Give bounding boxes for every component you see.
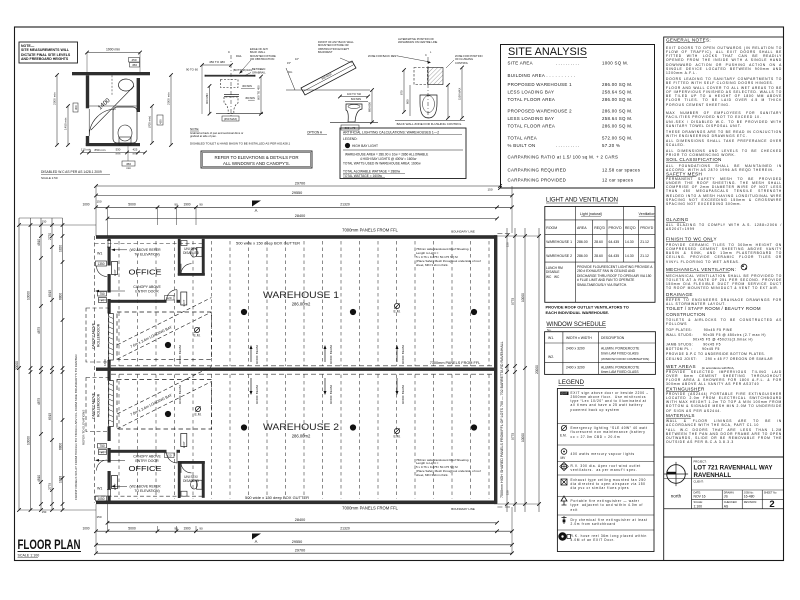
svg-text:28.60: 28.60 [594, 240, 603, 244]
svg-text:450: 450 [131, 58, 136, 62]
svg-text:90: 90 [174, 527, 178, 531]
svg-text:10000: 10000 [26, 291, 30, 300]
svg-text:5000: 5000 [128, 203, 136, 207]
svg-text:RAVENHALL: RAVENHALL [694, 472, 732, 479]
svg-text:100 TO 740: 100 TO 740 [347, 92, 362, 96]
svg-text:DESCRIPTION: DESCRIPTION [601, 336, 625, 340]
svg-text:WIDTH x WIDTH: WIDTH x WIDTH [566, 336, 592, 340]
svg-text:E.M.: E.M. [195, 413, 202, 417]
svg-text:1600: 1600 [103, 359, 107, 366]
svg-text:ROOF BEAM: ROOF BEAM [255, 345, 259, 364]
svg-text:90: 90 [199, 527, 203, 531]
svg-text:450: 450 [132, 63, 137, 67]
svg-text:6mm LAM FIXED GLASS: 6mm LAM FIXED GLASS [601, 352, 639, 356]
svg-text:(W2 ABOVE REFER: (W2 ABOVE REFER [129, 485, 161, 489]
svg-text:6mm LAM FIXED GLASS: 6mm LAM FIXED GLASS [601, 370, 639, 374]
svg-text:FRONT PANELS SPLAY FROM 7000mm: FRONT PANELS SPLAY FROM 7000mm TO 7300mm… [74, 354, 78, 500]
svg-text:16-480: 16-480 [744, 495, 755, 499]
svg-text:OPTION A: OPTION A [307, 131, 323, 135]
svg-text:29550: 29550 [292, 540, 303, 544]
svg-text:GLAZING: GLAZING [666, 217, 689, 222]
svg-text:TOTAL AREA: TOTAL AREA [508, 136, 538, 141]
svg-text:10000: 10000 [521, 293, 525, 302]
svg-text:BOUNDARY LINE: BOUNDARY LINE [451, 230, 475, 234]
svg-text:Light (natural): Light (natural) [580, 212, 602, 216]
svg-text:. . . . . . . . . .: . . . . . . . . . . [556, 61, 579, 66]
svg-text:LESS LOADING BAY: LESS LOADING BAY [508, 116, 555, 121]
svg-text:AS: AS [724, 504, 729, 508]
svg-text:572.00 SQ M.: 572.00 SQ M. [602, 136, 633, 141]
svg-text:90x45 F5 @ 450ctrs(3.0max H): 90x45 F5 @ 450ctrs(3.0max H) [666, 338, 753, 342]
svg-text:% BUILT ON: % BUILT ON [508, 143, 536, 148]
svg-text:ROOF BEAM: ROOF BEAM [401, 385, 405, 404]
svg-text:5000: 5000 [128, 527, 136, 531]
svg-text:min: min [116, 152, 121, 156]
svg-text:150: 150 [96, 200, 101, 204]
svg-text:750: 750 [99, 444, 105, 448]
svg-text:WAREHOUSE 2: WAREHOUSE 2 [263, 421, 339, 432]
svg-text:ENTRY DOOR: ENTRY DOOR [135, 290, 159, 294]
svg-text:E.M.: E.M. [194, 334, 201, 338]
svg-text:MATERIALS: MATERIALS [666, 413, 695, 418]
svg-text:920: 920 [166, 454, 171, 458]
svg-text:CANOPY ABOVE: CANOPY ABOVE [92, 322, 96, 349]
svg-text:1050: 1050 [97, 497, 104, 501]
svg-text:28400: 28400 [295, 214, 306, 218]
svg-text:ALUMIN. POWDERCOTE: ALUMIN. POWDERCOTE [601, 366, 640, 370]
svg-text:258.64 SQ M.: 258.64 SQ M. [602, 116, 633, 121]
svg-text:CONSTRUCTION: CONSTRUCTION [666, 312, 706, 317]
svg-text:SITE AREA: SITE AREA [508, 61, 533, 66]
svg-text:EXTINGUISHER: EXTINGUISHER [666, 387, 705, 392]
svg-text:1000 SQ M.: 1000 SQ M. [602, 61, 628, 66]
svg-text:LEGEND:: LEGEND: [343, 137, 358, 141]
svg-text:57.20 %: 57.20 % [602, 143, 620, 148]
svg-text:DISABLED TOILET & HAND BASIN T: DISABLED TOILET & HAND BASIN TO BE INSTA… [190, 142, 291, 146]
svg-text:TO ELEVATION): TO ELEVATION) [134, 253, 159, 257]
svg-text:BETWEEN: BETWEEN [252, 67, 265, 71]
svg-text:north: north [671, 494, 682, 499]
svg-text:MV: MV [561, 456, 567, 460]
svg-text:500 wide x 150 deep BOX GUTTER: 500 wide x 150 deep BOX GUTTER [236, 241, 300, 246]
svg-text:PROVIDE D.P.C TO UNDERSIDE BOT: PROVIDE D.P.C TO UNDERSIDE BOTTOM PLATES… [666, 352, 766, 356]
svg-text:E.M.: E.M. [394, 310, 401, 314]
svg-text:HIGH BAY LIGHT: HIGH BAY LIGHT [352, 144, 378, 148]
svg-text:21320: 21320 [340, 203, 350, 207]
svg-text:SAFETY MESH: SAFETY MESH [666, 172, 702, 177]
svg-text:2779: 2779 [48, 483, 52, 490]
svg-text:920: 920 [166, 296, 171, 300]
svg-text:W2.: W2. [548, 355, 554, 359]
svg-text:EXIT: EXIT [113, 269, 117, 276]
svg-text:PROVIDE ROOF OUTLET VENTILA: PROVIDE ROOF OUTLET VENTILATORS TO [546, 305, 629, 310]
svg-text:1000: 1000 [82, 527, 89, 531]
svg-text:286.00: 286.00 [577, 254, 588, 258]
svg-text:WAREHOUSE 1: WAREHOUSE 1 [546, 240, 572, 244]
svg-text:W1.: W1. [548, 336, 554, 340]
svg-text:150: 150 [506, 242, 510, 247]
svg-text:Dim: Dim [288, 71, 292, 74]
svg-text:TOILET / STAFF ROOM / BEAUTY: TOILET / STAFF ROOM / BEAUTY ROOM [666, 306, 761, 311]
svg-text:600 TO 450: 600 TO 450 [257, 85, 261, 100]
svg-text:7500mm HIGH SHARED PANELS FROM: 7500mm HIGH SHARED PANELS FROM FFL OF LO… [500, 341, 504, 498]
svg-text:28400: 28400 [295, 518, 306, 522]
svg-text:6915: 6915 [48, 290, 52, 297]
svg-text:1900 min: 1900 min [106, 48, 120, 52]
svg-text:9775: 9775 [511, 433, 515, 440]
svg-text:(450 MAX): (450 MAX) [224, 117, 237, 121]
svg-text:150: 150 [42, 510, 47, 514]
svg-text:600 MIN: 600 MIN [351, 97, 361, 101]
svg-text:690-800: 690-800 [368, 102, 372, 112]
svg-text:(700 min): (700 min) [148, 116, 152, 128]
svg-text:14.30: 14.30 [625, 240, 634, 244]
svg-text:BACK WALL ZONE FOR FLUSHING CO: BACK WALL ZONE FOR FLUSHING CONTROL [397, 122, 462, 126]
svg-text:ROOF BEAM: ROOF BEAM [329, 385, 333, 404]
svg-text:29550: 29550 [292, 191, 303, 195]
svg-text:110 min: 110 min [81, 148, 91, 152]
svg-text:7300mm PANELS FROM FFL: 7300mm PANELS FROM FFL [430, 361, 481, 365]
svg-text:OFFICE: OFFICE [129, 268, 162, 277]
svg-text:A: A [255, 539, 258, 544]
svg-text:EACH INDIVIDUAL WAREHOUSE.: EACH INDIVIDUAL WAREHOUSE. [546, 310, 610, 315]
svg-text:A: A [255, 208, 258, 213]
svg-text:1818: 1818 [58, 476, 62, 483]
svg-text:ROOF BEAM: ROOF BEAM [401, 345, 405, 364]
svg-text:ALUMIN. POWDERCOTE: ALUMIN. POWDERCOTE [601, 347, 640, 351]
svg-text:6800: 6800 [58, 293, 62, 300]
svg-text:SOIL CLASSIFICATION: SOIL CLASSIFICATION [666, 157, 722, 162]
svg-text:FINISH TO WC ONLY: FINISH TO WC ONLY [666, 237, 717, 242]
svg-text:SITE ANALYSIS: SITE ANALYSIS [508, 46, 587, 58]
svg-text:REQ'D: REQ'D [625, 226, 636, 230]
svg-text:TOTAL FLOOR AREA: TOTAL FLOOR AREA [508, 97, 556, 102]
svg-text:PROV'D: PROV'D [609, 226, 623, 230]
svg-text:Ventilation: Ventilation [639, 212, 656, 216]
svg-text:CEILING JOIST: 290 x 45 F: CEILING JOIST: 290 x 45 F7 OREGON OR SIM… [666, 357, 773, 361]
svg-text:BOTTOM PL : 90x45 F5: BOTTOM PL : 90x45 F5 [666, 347, 720, 351]
svg-text:10°: 10° [295, 57, 299, 61]
svg-text:BOUNDARY LINE: BOUNDARY LINE [451, 507, 475, 511]
svg-text:min: min [133, 152, 138, 156]
svg-text:750: 750 [99, 292, 105, 296]
svg-text:64.435: 64.435 [609, 240, 620, 244]
svg-text:ROLLERDOOR: ROLLERDOOR [97, 323, 101, 347]
svg-text:28.60: 28.60 [594, 254, 603, 258]
svg-text:12.58 car spaces: 12.58 car spaces [602, 168, 641, 173]
svg-text:ROOM: ROOM [546, 226, 557, 230]
svg-text:LESS LOADING BAY: LESS LOADING BAY [508, 90, 555, 95]
svg-text:L: L [430, 51, 432, 54]
svg-text:450 TO 480: 450 TO 480 [209, 60, 225, 64]
svg-text:1820: 1820 [58, 245, 62, 252]
svg-text:JS: JS [724, 495, 729, 499]
svg-text:CLIENT:: CLIENT: [694, 480, 704, 484]
svg-text:JAMB STUDS: 90x45 F5: JAMB STUDS: 90x45 F5 [666, 342, 721, 346]
svg-text:TOTAL ALOWABLE WATTAGE = 2860w: TOTAL ALOWABLE WATTAGE = 2860w [343, 169, 401, 173]
svg-text:WINDOW SCHEDULE: WINDOW SCHEDULE [546, 321, 606, 328]
svg-text:TOTAL WATTAGE = 1600w: TOTAL WATTAGE = 1600w [343, 174, 383, 178]
svg-text:(BOTTOM) RAIL: (BOTTOM) RAIL [233, 68, 253, 72]
svg-text:DISABLED W.C AS PER AS 1428.1: DISABLED W.C AS PER AS 1428.1 2009 [41, 170, 102, 174]
svg-text:PROV'D: PROV'D [640, 226, 654, 230]
svg-text:1350: 1350 [97, 262, 104, 266]
svg-text:WAREHOUSE 2: WAREHOUSE 2 [546, 254, 572, 258]
svg-text:286.00m2: 286.00m2 [292, 302, 311, 307]
svg-text:4875: 4875 [37, 398, 41, 405]
svg-text:REFER TO ELEVATIONS: REFER TO ELEVATIONS [82, 410, 86, 445]
svg-text:CARPARKING PROVIDED: CARPARKING PROVIDED [508, 178, 567, 183]
svg-text:150: 150 [506, 490, 510, 495]
svg-text:1900: 1900 [183, 203, 190, 207]
svg-text:20000: 20000 [15, 361, 19, 370]
svg-text:4810: 4810 [37, 239, 41, 246]
svg-text:E.M.: E.M. [394, 435, 401, 439]
svg-text:RAIL: RAIL [236, 54, 242, 58]
svg-text:286.00m2: 286.00m2 [292, 434, 311, 439]
svg-text:300: 300 [74, 105, 78, 110]
svg-text:GRABRAIL: GRABRAIL [252, 71, 266, 75]
svg-text:EXIT: EXIT [182, 441, 186, 448]
svg-text:CANOPY ABOVE: CANOPY ABOVE [133, 455, 161, 459]
svg-text:NOTE:: NOTE: [190, 127, 199, 131]
svg-text:21.12: 21.12 [640, 254, 649, 258]
svg-text:ARTIFICIAL LIGHTING CALCULATIO: ARTIFICIAL LIGHTING CALCULATIONS: WAREHO… [343, 131, 439, 135]
svg-text:TOP PLATES: 90x45 F5 PI: TOP PLATES: 90x45 F5 PINE [666, 328, 733, 332]
svg-text:29700: 29700 [295, 549, 306, 553]
svg-text:4 HIGH BAY LIGHTS @ 400W = 160: 4 HIGH BAY LIGHTS @ 400W = 1600w [360, 157, 417, 161]
svg-text:2770: 2770 [48, 233, 52, 240]
svg-text:DISABLED: DISABLED [183, 479, 199, 483]
svg-text:ENTRY DOOR: ENTRY DOOR [135, 459, 159, 463]
svg-text:10000: 10000 [26, 436, 30, 445]
svg-text:2400 x 3200: 2400 x 3200 [566, 366, 585, 370]
svg-text:TOTAL WATTS USED IN WAREHOUSE: TOTAL WATTS USED IN WAREHOUSE AREA: 1600… [343, 161, 421, 165]
svg-text:BUILDING AREA . . . . . . . .: BUILDING AREA . . . . . . . . . . [508, 73, 576, 78]
svg-text:90: 90 [174, 203, 178, 207]
svg-text:SCALE 1:50: SCALE 1:50 [41, 176, 58, 180]
svg-text:7000mm PANELS FROM FFL: 7000mm PANELS FROM FFL [342, 228, 398, 233]
svg-text:4875: 4875 [37, 327, 41, 334]
svg-text:ROOF BEAM: ROOF BEAM [329, 345, 333, 364]
svg-text:LIGHT AND VENTILATION: LIGHT AND VENTILATION [546, 197, 618, 204]
svg-text:300 MIN: 300 MIN [242, 84, 252, 88]
svg-text:WALL STUDS: 90x35 F5 @ 4: WALL STUDS: 90x35 F5 @ 450ctrs (2.7 max … [666, 333, 766, 337]
svg-text:150: 150 [42, 220, 47, 224]
svg-text:DISABLED: DISABLED [183, 251, 199, 255]
svg-text:PROPOSED WAREHOUSE 2: PROPOSED WAREHOUSE 2 [508, 109, 573, 114]
svg-text:GENERAL NOTES:: GENERAL NOTES: [666, 38, 711, 43]
svg-text:150: 150 [96, 515, 101, 519]
svg-text:TOTAL FLOOR AREA: TOTAL FLOOR AREA [508, 124, 556, 129]
svg-text:PROJECT:: PROJECT: [694, 460, 707, 464]
svg-text:#7: #7 [101, 451, 105, 455]
svg-text:2300 min: 2300 min [167, 92, 171, 105]
svg-text:20000: 20000 [535, 365, 539, 374]
svg-text:286.00 SQ M.: 286.00 SQ M. [602, 109, 633, 114]
svg-text:W1: W1 [97, 252, 102, 256]
svg-text:CHECKED:: CHECKED: [724, 500, 738, 504]
svg-text:AREA: AREA [577, 226, 587, 230]
svg-text:1100 MAX: 1100 MAX [458, 87, 462, 100]
svg-text:90: 90 [199, 203, 203, 207]
svg-text:PROPOSED WAREHOUSE 1: PROPOSED WAREHOUSE 1 [508, 82, 573, 87]
svg-text:1000: 1000 [82, 203, 89, 207]
svg-text:430: 430 [159, 119, 163, 124]
svg-text:WAREHOUSE 1: WAREHOUSE 1 [263, 289, 339, 300]
svg-text:SCALE:: SCALE: [694, 500, 704, 504]
svg-text:64.435: 64.435 [609, 254, 620, 258]
svg-text:1400: 1400 [97, 97, 112, 112]
svg-text:ROOF BEAM: ROOF BEAM [178, 345, 182, 364]
svg-text:450 MIN: 450 MIN [245, 96, 255, 100]
svg-text:286.00 SQ M.: 286.00 SQ M. [602, 97, 633, 102]
svg-text:CARPARKING RATIO at 1.5/ 1: CARPARKING RATIO at 1.5/ 100 sq M. + 2 C… [508, 155, 619, 160]
svg-text:C: C [228, 50, 231, 54]
svg-text:1:100: 1:100 [694, 504, 703, 508]
svg-text:150: 150 [506, 365, 510, 370]
svg-text:14.30: 14.30 [625, 254, 634, 258]
svg-text:SCALE 1:100: SCALE 1:100 [18, 554, 40, 558]
svg-text:29700: 29700 [295, 181, 306, 185]
svg-text:CANOPY ABOVE: CANOPY ABOVE [92, 392, 96, 419]
svg-text:150: 150 [487, 188, 492, 192]
svg-text:#7: #7 [101, 299, 105, 303]
svg-text:286.00: 286.00 [577, 240, 588, 244]
svg-text:MECHANICAL VENTILATION:: MECHANICAL VENTILATION: [666, 267, 736, 272]
svg-text:ROLLERDOOR: ROLLERDOOR [97, 393, 101, 417]
svg-text:W1: W1 [97, 487, 102, 491]
svg-text:min: min [126, 166, 131, 170]
svg-text:OFFICE: OFFICE [129, 464, 162, 473]
svg-text:4810: 4810 [37, 475, 41, 482]
svg-text:600: 600 [406, 99, 410, 104]
svg-text:6800: 6800 [58, 443, 62, 450]
svg-text:2: 2 [769, 499, 774, 510]
svg-text:ZONE FOR BACK REST: ZONE FOR BACK REST [368, 54, 398, 58]
svg-text:21320: 21320 [340, 527, 350, 531]
svg-text:REFER TO ELEVATIONS & DETAILS: REFER TO ELEVATIONS & DETAILS FOR [214, 155, 298, 160]
svg-text:12 car spaces: 12 car spaces [602, 178, 634, 183]
svg-text:ROOF BEAM: ROOF BEAM [178, 385, 182, 404]
svg-text:TO ELEVATION): TO ELEVATION) [134, 489, 159, 493]
svg-text:WET AREAS: WET AREAS [666, 364, 696, 369]
svg-text:. . . . . . . . . .: . . . . . . . . . . [556, 143, 579, 148]
svg-text:C: C [425, 53, 427, 57]
svg-text:870: 870 [400, 90, 404, 95]
svg-text:500 wide x 150 deep BOX GUTTER: 500 wide x 150 deep BOX GUTTER [245, 495, 309, 500]
svg-text:2300 min: 2300 min [53, 92, 57, 105]
svg-text:350 MAX: 350 MAX [321, 72, 333, 81]
svg-text:REQ'D: REQ'D [594, 226, 605, 230]
svg-text:ALL WINDOW'S AND CANOPY'S.: ALL WINDOW'S AND CANOPY'S. [223, 161, 290, 166]
svg-text:7000mm PANELS FROM FFL: 7000mm PANELS FROM FFL [342, 506, 398, 511]
svg-text:EXIT: EXIT [182, 300, 186, 307]
svg-text:LOT 721 RAVENHALL WAY: LOT 721 RAVENHALL WAY [694, 464, 774, 471]
svg-text:258.64 SQ M.: 258.64 SQ M. [602, 90, 633, 95]
svg-text:1900: 1900 [183, 527, 190, 531]
svg-text:850 min: 850 min [94, 148, 105, 152]
svg-text:2400 x 3200: 2400 x 3200 [566, 347, 585, 351]
svg-text:90 TO 60: 90 TO 60 [186, 68, 198, 72]
svg-text:9775: 9775 [511, 298, 515, 305]
svg-text:286.00 SQ M.: 286.00 SQ M. [602, 82, 633, 87]
svg-text:DRAINAGE: DRAINAGE [666, 292, 693, 297]
svg-text:10000: 10000 [521, 433, 525, 442]
svg-text:FLOOR PLAN: FLOOR PLAN [18, 536, 81, 552]
svg-text:ROOF BEAM: ROOF BEAM [255, 385, 259, 404]
svg-text:CANOPY ABOVE: CANOPY ABOVE [133, 285, 161, 289]
svg-text:(W2 ABOVE REFER: (W2 ABOVE REFER [129, 248, 161, 252]
svg-text:21.12: 21.12 [640, 240, 649, 244]
svg-text:6915: 6915 [48, 413, 52, 420]
svg-text:600 MIN: 600 MIN [205, 93, 209, 104]
svg-text:LEGEND: LEGEND [558, 379, 584, 386]
svg-text:NOV 16: NOV 16 [694, 495, 706, 499]
svg-text:1450 min: 1450 min [64, 117, 68, 130]
svg-text:EXIT: EXIT [561, 391, 567, 395]
svg-text:CARPARKING REQUIRED: CARPARKING REQUIRED [508, 168, 567, 173]
svg-text:286.00 SQ M.: 286.00 SQ M. [602, 124, 633, 129]
svg-text:SHEET No: SHEET No [764, 490, 777, 494]
svg-text:15°: 15° [287, 61, 291, 65]
svg-text:(WINDOW DOOR COMBINATION): (WINDOW DOOR COMBINATION) [601, 357, 649, 361]
svg-text:REVISION:: REVISION: [744, 500, 757, 504]
svg-text:E.M.: E.M. [560, 434, 567, 438]
